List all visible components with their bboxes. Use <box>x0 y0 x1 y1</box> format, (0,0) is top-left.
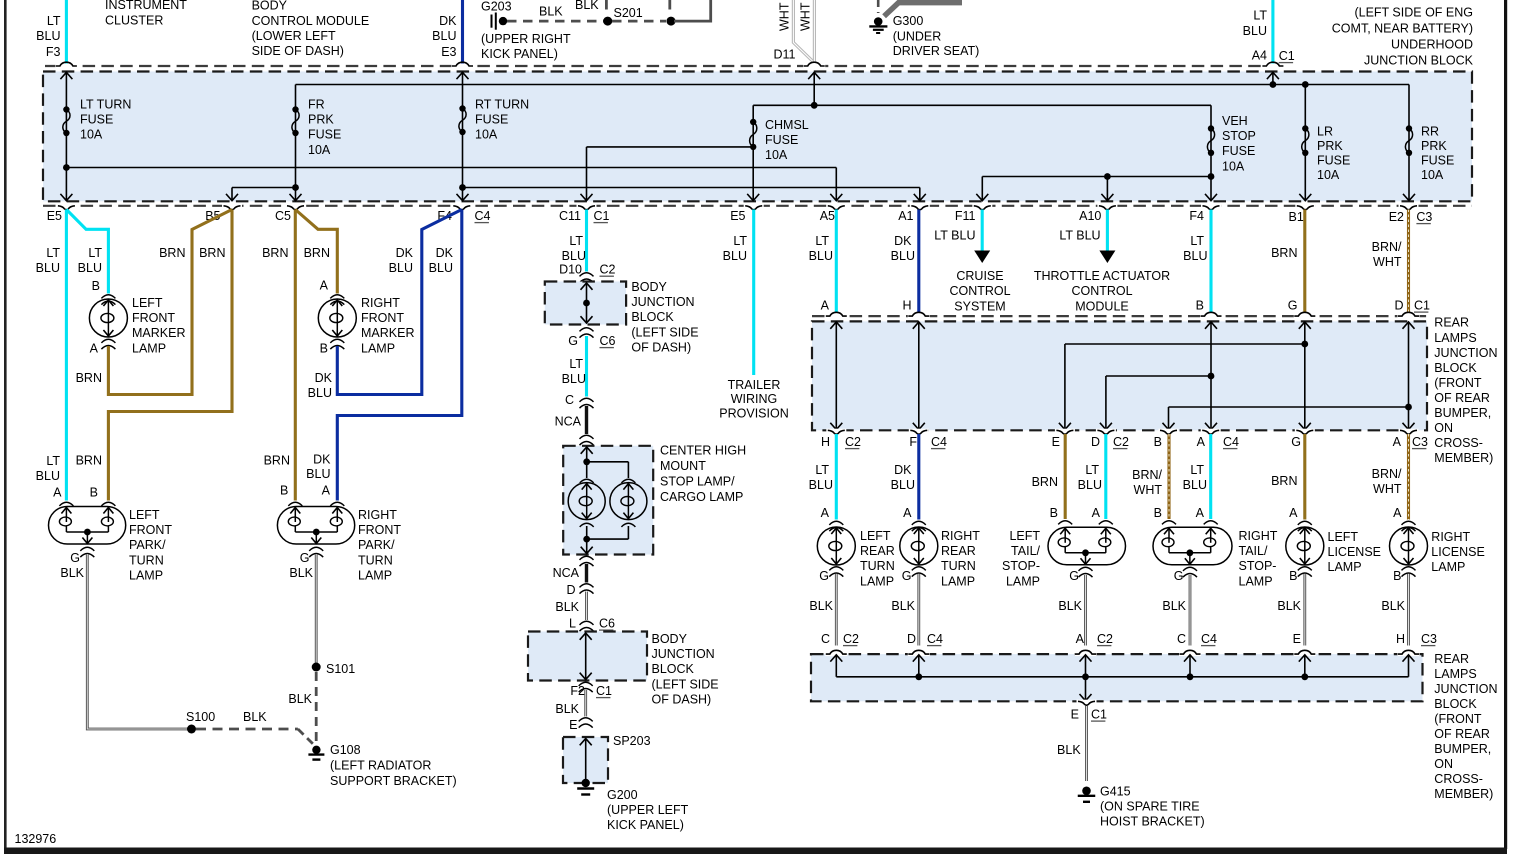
svg-text:STOP-: STOP- <box>1002 559 1040 573</box>
wire DK BLU A1 to rear block H <box>917 210 920 313</box>
wire solid to upper module <box>674 0 711 21</box>
block1 tap wire to exit D <box>1106 375 1211 377</box>
svg-text:A: A <box>53 486 62 500</box>
svg-text:JUNCTION: JUNCTION <box>1434 346 1497 360</box>
svg-text:LAMP: LAMP <box>358 568 392 582</box>
svg-text:L: L <box>569 617 576 631</box>
svg-text:BLK: BLK <box>1381 599 1405 613</box>
svg-text:LAMP: LAMP <box>129 568 163 582</box>
svg-text:PRK: PRK <box>308 113 334 127</box>
svg-text:D: D <box>1091 435 1100 449</box>
wire BRN C5 to right park/turn lamp B <box>294 210 297 501</box>
svg-text:OF DASH): OF DASH) <box>652 692 712 706</box>
svg-text:MEMBER): MEMBER) <box>1434 787 1493 801</box>
svg-text:10A: 10A <box>308 143 331 157</box>
svg-text:LICENSE: LICENSE <box>1328 545 1382 559</box>
svg-text:10A: 10A <box>80 128 103 142</box>
svg-text:A: A <box>1289 506 1298 520</box>
svg-text:MEMBER): MEMBER) <box>1434 451 1493 465</box>
svg-text:BLU: BLU <box>389 261 413 275</box>
svg-text:BODY: BODY <box>631 280 667 294</box>
stub wire above junction <box>668 0 671 14</box>
center high mount stop lamp / cargo lamp box <box>563 446 653 555</box>
svg-text:C: C <box>821 632 830 646</box>
svg-text:DK: DK <box>315 371 333 385</box>
wire BLK left rear turn G <box>835 574 838 646</box>
svg-text:S100: S100 <box>186 710 215 724</box>
svg-text:S101: S101 <box>326 662 355 676</box>
svg-text:B: B <box>320 342 328 356</box>
left front marker lamp <box>89 295 127 349</box>
svg-text:C4: C4 <box>1223 435 1239 449</box>
svg-text:LT: LT <box>815 463 829 477</box>
wire BLK from left park/turn G to S100 <box>87 554 191 729</box>
splice S101 <box>312 663 321 672</box>
block2 internal bus <box>830 655 1414 701</box>
svg-text:BLOCK: BLOCK <box>1434 361 1477 375</box>
svg-text:ON: ON <box>1434 421 1453 435</box>
svg-text:C: C <box>1177 632 1186 646</box>
wire LT BLU to right tail lamp A <box>1209 434 1212 519</box>
wire DK BLU from BCM E3 <box>461 0 464 64</box>
svg-text:C4: C4 <box>1201 632 1217 646</box>
connector bump entry <box>1398 314 1420 318</box>
svg-text:SIDE OF DASH): SIDE OF DASH) <box>252 44 344 58</box>
svg-text:LAMP: LAMP <box>1006 574 1040 588</box>
ground G415 (on spare tire hoist bracket) <box>1082 787 1091 796</box>
svg-text:B: B <box>1393 569 1401 583</box>
svg-text:PRK: PRK <box>1421 139 1447 153</box>
junction dot <box>667 17 676 26</box>
svg-text:B: B <box>92 279 100 293</box>
svg-text:LEFT: LEFT <box>860 529 891 543</box>
svg-text:JUNCTION BLOCK: JUNCTION BLOCK <box>1364 54 1474 68</box>
svg-text:C: C <box>565 393 574 407</box>
svg-text:C1: C1 <box>596 684 612 698</box>
svg-text:TAIL/: TAIL/ <box>1011 544 1040 558</box>
connector E3 <box>452 64 474 68</box>
svg-text:UNDERHOOD: UNDERHOOD <box>1391 38 1473 52</box>
svg-text:BRN/: BRN/ <box>1372 240 1402 254</box>
connector exit bump <box>1201 204 1221 207</box>
svg-text:FUSE: FUSE <box>308 128 341 142</box>
connector exit bump <box>452 204 472 207</box>
block1 vertical G to G with tap <box>1304 322 1306 430</box>
svg-text:C1: C1 <box>594 209 610 223</box>
svg-text:(LEFT RADIATOR: (LEFT RADIATOR <box>330 759 431 773</box>
svg-text:CONTROL MODULE: CONTROL MODULE <box>252 14 370 28</box>
svg-text:LEFT: LEFT <box>1328 530 1359 544</box>
body junction block (lower) <box>528 632 647 681</box>
svg-text:LAMP: LAMP <box>941 574 975 588</box>
svg-text:WIRING: WIRING <box>731 392 778 406</box>
ground G200 (upper left kick panel) <box>582 779 590 787</box>
right front marker lamp <box>318 295 356 349</box>
svg-text:F3: F3 <box>46 45 61 59</box>
wire corner to A1 exit <box>919 188 921 201</box>
svg-text:G108: G108 <box>330 743 361 757</box>
svg-text:D: D <box>907 632 916 646</box>
svg-text:A: A <box>1076 632 1085 646</box>
left license lamp <box>1286 521 1324 576</box>
right rear turn lamp <box>900 521 938 576</box>
svg-text:D: D <box>566 583 575 597</box>
svg-text:G: G <box>819 569 829 583</box>
wire LT BLU to left rear turn lamp A <box>835 434 838 520</box>
fuse column RT TURN <box>462 73 464 201</box>
fuse column VEH STOP <box>1210 105 1212 200</box>
svg-text:PROVISION: PROVISION <box>719 407 788 421</box>
svg-text:BLOCK: BLOCK <box>631 310 674 324</box>
CHMSL left lamp <box>568 479 605 527</box>
block1 vertical H to F <box>918 322 920 430</box>
right tail/stop lamp <box>1162 521 1218 525</box>
svg-text:CROSS-: CROSS- <box>1434 436 1483 450</box>
svg-text:TURN: TURN <box>941 559 976 573</box>
svg-text:BLK: BLK <box>243 710 267 724</box>
svg-text:G: G <box>1174 569 1184 583</box>
wire BRN from left marker lamp A to B5 <box>108 210 232 395</box>
connector D <box>580 584 594 588</box>
connector bump entry block2 <box>1398 652 1420 656</box>
svg-text:10A: 10A <box>765 148 788 162</box>
ground G203 (upper right kick panel) <box>481 0 571 61</box>
connector exit bump <box>56 204 76 207</box>
connector bump entry block2 <box>1179 652 1201 656</box>
svg-text:10A: 10A <box>475 128 498 142</box>
svg-text:LAMP: LAMP <box>1328 560 1362 574</box>
svg-text:RIGHT: RIGHT <box>1431 530 1470 544</box>
fuse column FR PRK <box>295 85 297 201</box>
left front park/turn lamp <box>59 502 115 506</box>
svg-text:BRN: BRN <box>1271 474 1297 488</box>
svg-text:D10: D10 <box>559 263 582 277</box>
svg-text:BLU: BLU <box>1243 24 1267 38</box>
wire NCA below CHMSL <box>585 564 588 583</box>
connector line below fuse box <box>43 205 1472 207</box>
svg-text:CONTROL: CONTROL <box>949 284 1010 298</box>
svg-text:MARKER: MARKER <box>361 326 414 340</box>
svg-text:BUMPER,: BUMPER, <box>1434 742 1491 756</box>
wire DK BLU from F4/C4 to right park/turn lamp A <box>337 210 462 501</box>
svg-text:C1: C1 <box>1279 49 1295 63</box>
wire WHT pair into D11 <box>793 0 813 62</box>
wire BRN from B5 to left park/turn lamp B <box>108 210 232 501</box>
connector exit bump <box>286 204 306 207</box>
page border left <box>4 0 7 849</box>
connector bump exit <box>1096 429 1116 432</box>
connector exit bump <box>577 204 597 207</box>
svg-text:BLU: BLU <box>1078 478 1102 492</box>
svg-text:E: E <box>1071 708 1079 722</box>
svg-text:FUSE: FUSE <box>475 113 508 127</box>
svg-text:LT: LT <box>47 14 61 28</box>
svg-text:(FRONT: (FRONT <box>1434 376 1482 390</box>
svg-text:BLU: BLU <box>1183 249 1207 263</box>
svg-text:RT TURN: RT TURN <box>475 98 529 112</box>
wire BLK dashed S101 to G108 <box>315 672 318 743</box>
bus wire from D11 to CHMSL and VEH STOP <box>753 104 1211 106</box>
svg-text:(FRONT: (FRONT <box>1434 712 1482 726</box>
svg-text:LT BLU: LT BLU <box>934 229 975 243</box>
svg-text:FRONT: FRONT <box>129 523 172 537</box>
splice S201 <box>603 17 612 26</box>
svg-text:C4: C4 <box>475 209 491 223</box>
connector exit bump <box>910 204 930 207</box>
connector bump exit <box>1399 429 1419 432</box>
svg-text:E: E <box>1293 632 1301 646</box>
svg-text:B: B <box>1154 506 1162 520</box>
svg-text:RIGHT: RIGHT <box>1239 529 1278 543</box>
svg-text:BRN: BRN <box>262 246 288 260</box>
svg-text:DK: DK <box>439 14 457 28</box>
svg-text:G300: G300 <box>893 14 924 28</box>
right license lamp <box>1390 521 1428 576</box>
arrow to cruise control <box>974 251 990 264</box>
block1 tap wire to exit B <box>1169 406 1409 408</box>
svg-text:10A: 10A <box>1421 168 1444 182</box>
svg-text:C1: C1 <box>1091 708 1107 722</box>
left rear turn lamp <box>817 521 855 576</box>
svg-text:KICK PANEL): KICK PANEL) <box>607 818 684 832</box>
connector bump entry block2 <box>908 652 930 656</box>
svg-text:(LOWER LEFT: (LOWER LEFT <box>252 29 336 43</box>
svg-text:LAMP: LAMP <box>1239 574 1273 588</box>
wire BRN/WHT to right tail lamp B <box>1167 434 1170 519</box>
svg-text:BRN: BRN <box>264 454 290 468</box>
svg-text:LT: LT <box>815 234 829 248</box>
svg-text:LT: LT <box>569 357 583 371</box>
svg-text:BLU: BLU <box>723 249 747 263</box>
svg-text:FUSE: FUSE <box>1317 154 1350 168</box>
svg-text:FRONT: FRONT <box>358 523 401 537</box>
svg-text:BLK: BLK <box>288 692 312 706</box>
svg-text:BLU: BLU <box>891 249 915 263</box>
svg-text:CENTER HIGH: CENTER HIGH <box>660 444 746 458</box>
connector exit bump <box>744 204 764 207</box>
svg-text:LT: LT <box>46 246 60 260</box>
svg-text:LAMP: LAMP <box>1431 560 1465 574</box>
svg-text:STOP-: STOP- <box>1239 559 1277 573</box>
svg-text:C4: C4 <box>927 632 943 646</box>
svg-text:B: B <box>90 486 98 500</box>
page border right <box>1504 0 1507 849</box>
svg-text:STOP: STOP <box>1222 129 1256 143</box>
svg-text:DK: DK <box>436 246 454 260</box>
svg-text:G: G <box>300 551 310 565</box>
svg-text:BODY: BODY <box>652 632 688 646</box>
svg-text:BLU: BLU <box>36 261 60 275</box>
svg-text:D: D <box>1394 299 1403 313</box>
wire FR PRK fuse to B5 <box>232 187 296 189</box>
svg-text:NCA: NCA <box>553 566 580 580</box>
svg-text:C2: C2 <box>1113 435 1129 449</box>
svg-text:BLU: BLU <box>432 29 456 43</box>
svg-text:THROTTLE ACTUATOR: THROTTLE ACTUATOR <box>1034 269 1170 283</box>
svg-text:C2: C2 <box>845 435 861 449</box>
svg-text:CHMSL: CHMSL <box>765 118 809 132</box>
svg-text:BLU: BLU <box>306 467 330 481</box>
wire corner A5 exit <box>835 168 837 201</box>
block1 vertical B to A with tap <box>1210 322 1212 430</box>
svg-text:BLU: BLU <box>809 478 833 492</box>
svg-text:BRN: BRN <box>304 246 330 260</box>
svg-text:MODULE: MODULE <box>1075 299 1128 313</box>
svg-text:LT: LT <box>1190 234 1204 248</box>
svg-text:PARK/: PARK/ <box>129 538 166 552</box>
svg-text:WHT: WHT <box>778 2 792 31</box>
svg-text:A: A <box>90 342 99 356</box>
wire LT BLU C11 to body junction block <box>585 210 588 272</box>
svg-text:A: A <box>1197 435 1206 449</box>
svg-text:FUSE: FUSE <box>1421 154 1454 168</box>
svg-text:WHT: WHT <box>1373 482 1402 496</box>
page border bottom <box>4 848 1507 855</box>
svg-text:B1: B1 <box>1289 210 1304 224</box>
connector G C6 <box>580 328 594 332</box>
wire LT BLU A5 to rear block A <box>835 210 838 313</box>
svg-text:H: H <box>902 299 911 313</box>
svg-text:F: F <box>909 435 917 449</box>
svg-text:BLK: BLK <box>555 702 579 716</box>
svg-text:BLK: BLK <box>60 566 84 580</box>
stub wire above S201 <box>605 0 608 14</box>
svg-text:FRONT: FRONT <box>132 311 175 325</box>
svg-text:INSTRUMENT: INSTRUMENT <box>105 0 187 12</box>
svg-text:E2: E2 <box>1389 210 1404 224</box>
svg-text:10A: 10A <box>1317 168 1340 182</box>
svg-text:BLU: BLU <box>1183 478 1207 492</box>
svg-text:A4: A4 <box>1252 49 1267 63</box>
wire BLK to SP203 <box>584 690 587 717</box>
svg-text:RIGHT: RIGHT <box>358 508 397 522</box>
wire LT BLU E5 to left park/turn lamp A <box>65 210 68 501</box>
svg-text:BLK: BLK <box>575 0 599 12</box>
svg-text:REAR: REAR <box>1434 316 1469 330</box>
wire BLK right license B <box>1407 574 1410 646</box>
wire NCA to CHMSL lamp <box>585 406 588 434</box>
svg-text:FUSE: FUSE <box>1222 144 1255 158</box>
CHMSL right lamp <box>610 479 647 527</box>
fuse column LT TURN <box>65 73 67 201</box>
connector bump exit <box>1201 429 1221 432</box>
svg-text:G: G <box>1069 569 1079 583</box>
block1 vertical A to H <box>835 322 837 430</box>
svg-text:F11: F11 <box>955 209 976 223</box>
svg-text:B: B <box>280 483 288 497</box>
splice block SP203 <box>563 737 608 783</box>
svg-text:OF REAR: OF REAR <box>1434 727 1490 741</box>
connector exit bump <box>1295 204 1315 207</box>
svg-text:C3: C3 <box>1416 210 1432 224</box>
svg-text:(ON SPARE TIRE: (ON SPARE TIRE <box>1100 800 1200 814</box>
svg-text:FUSE: FUSE <box>765 133 798 147</box>
svg-text:CONTROL: CONTROL <box>1071 284 1132 298</box>
svg-text:DK: DK <box>894 463 912 477</box>
connector bump exit <box>909 429 929 432</box>
svg-text:A: A <box>1092 506 1101 520</box>
svg-text:HOIST BRACKET): HOIST BRACKET) <box>1100 815 1205 829</box>
fuse column CHMSL <box>752 105 754 200</box>
svg-text:E: E <box>569 718 577 732</box>
connector into body junction block <box>580 273 594 277</box>
svg-text:BLU: BLU <box>429 261 453 275</box>
connector bump entry block2 <box>1294 652 1316 656</box>
svg-text:C3: C3 <box>1421 632 1437 646</box>
connector below CHMSL box <box>580 556 594 560</box>
svg-text:132976: 132976 <box>15 832 57 846</box>
wire BRN/WHT to right license lamp A <box>1407 434 1410 520</box>
wire A10 exit <box>1104 173 1111 180</box>
svg-text:(UPPER RIGHT: (UPPER RIGHT <box>481 32 571 46</box>
connector exit bump <box>972 204 992 207</box>
connector bump exit <box>1295 429 1315 432</box>
svg-text:LT: LT <box>1085 463 1099 477</box>
svg-text:BRN: BRN <box>1032 475 1058 489</box>
svg-text:A: A <box>1196 506 1205 520</box>
svg-text:ON: ON <box>1434 757 1453 771</box>
svg-text:LICENSE: LICENSE <box>1431 545 1485 559</box>
connector D11 <box>803 64 825 68</box>
block1 vertical D to A with tap <box>1408 322 1410 430</box>
svg-text:LT: LT <box>1253 9 1267 23</box>
right front park/turn lamp <box>288 502 344 506</box>
svg-text:TURN: TURN <box>860 559 895 573</box>
wire BLK dashed from S201 to junction <box>612 20 666 23</box>
svg-text:BRN: BRN <box>199 246 225 260</box>
connector line above fuse box <box>45 65 1285 67</box>
svg-text:LT BLU: LT BLU <box>1059 229 1100 243</box>
svg-text:(LEFT SIDE OF ENG: (LEFT SIDE OF ENG <box>1354 6 1473 20</box>
svg-text:RIGHT: RIGHT <box>941 529 980 543</box>
connector bump entry block2 <box>1075 652 1097 656</box>
svg-text:LT TURN: LT TURN <box>80 98 131 112</box>
svg-text:LT: LT <box>569 234 583 248</box>
connector bump entry <box>908 314 930 318</box>
wire BRN to left tail lamp B <box>1064 434 1067 519</box>
svg-text:CARGO LAMP: CARGO LAMP <box>660 490 743 504</box>
wire LT BLU into A4 C1 <box>1271 0 1274 64</box>
wire BLK left license B <box>1303 574 1306 646</box>
connector exit bump <box>1097 204 1117 207</box>
svg-text:BLK: BLK <box>1277 599 1301 613</box>
svg-text:BLK: BLK <box>1058 599 1082 613</box>
svg-text:RIGHT: RIGHT <box>361 296 400 310</box>
svg-text:(UPPER LEFT: (UPPER LEFT <box>607 803 689 817</box>
svg-text:TURN: TURN <box>358 553 393 567</box>
svg-text:MARKER: MARKER <box>132 326 185 340</box>
svg-text:S201: S201 <box>614 6 643 20</box>
CHMSL internal wiring <box>581 447 629 478</box>
svg-text:PRK: PRK <box>1317 139 1343 153</box>
svg-text:C6: C6 <box>600 334 616 348</box>
connector F3 <box>55 64 77 68</box>
svg-text:BRN: BRN <box>76 371 102 385</box>
svg-text:SUPPORT BRACKET): SUPPORT BRACKET) <box>330 774 457 788</box>
connector exit bump <box>826 204 846 207</box>
connector exit E C1 <box>1077 700 1097 703</box>
svg-text:CLUSTER: CLUSTER <box>105 13 163 27</box>
svg-text:C4: C4 <box>931 435 947 449</box>
svg-text:BUMPER,: BUMPER, <box>1434 406 1491 420</box>
svg-text:G: G <box>1288 299 1298 313</box>
right park/turn lamp G connector <box>309 547 323 551</box>
svg-text:F4: F4 <box>1189 209 1204 223</box>
svg-text:BLU: BLU <box>562 372 586 386</box>
svg-text:BLU: BLU <box>308 386 332 400</box>
ground G108 (left radiator support bracket) <box>312 746 320 754</box>
right tail G connector <box>1183 567 1197 571</box>
